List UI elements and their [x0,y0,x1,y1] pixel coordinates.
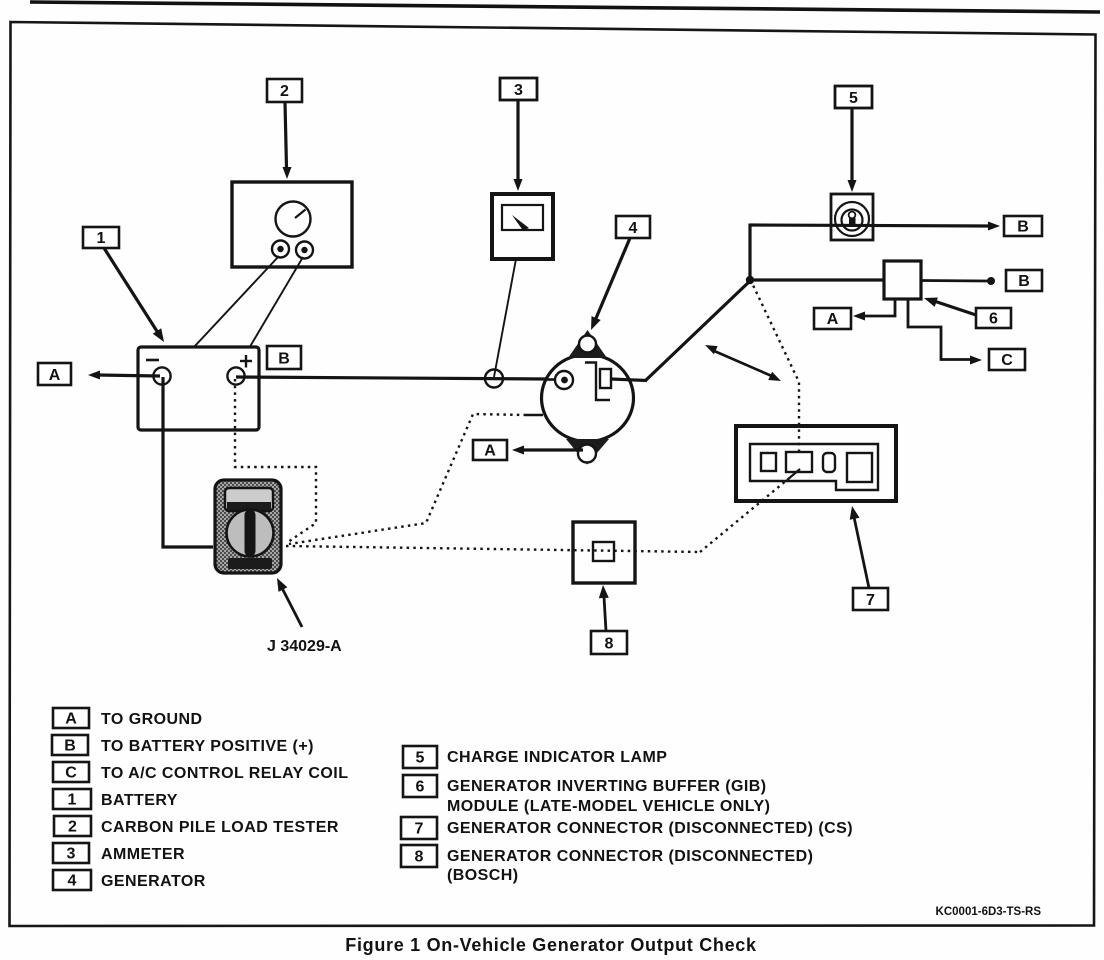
arrow from callout 5 to charge indicator lamp [848,108,857,192]
arrow from callout 7 to CS connector [850,506,869,588]
svg-text:B: B [1018,273,1030,290]
junction node dot [746,276,754,284]
CS connector cavity 4 [847,453,872,482]
wire diagonal from generator up to junction node [645,280,751,381]
ammeter sense lead to wire junction [494,259,516,377]
junction circle at ammeter tap [485,370,503,388]
svg-text:B: B [278,351,290,368]
wire generator to ground arrow A [512,446,583,455]
svg-text:Figure 1 On-Vehicle Generator: Figure 1 On-Vehicle Generator Output Che… [345,935,757,955]
carbon pile knob left [272,241,289,258]
callout box 5 [835,86,872,108]
arrow from callout 3 to ammeter [514,100,523,191]
wire battery negative down to tester J34029-A [163,377,213,547]
legend item 7 [401,817,853,839]
carbon pile meter needle [295,210,306,219]
callout box A (module ground) [814,308,851,329]
callout box C [989,349,1025,370]
CS connector inner outline [750,444,878,490]
legend key B [52,735,314,755]
svg-text:C: C [65,765,77,782]
legend item 8 [401,845,813,884]
GIB module lead to A/C relay coil arrow C [908,299,982,365]
svg-text:2: 2 [280,83,289,100]
dotted lead CS terminal up to junction node [751,281,799,452]
svg-text:4: 4 [68,873,77,890]
test lead from left knob to battery negative terminal [166,256,279,377]
svg-text:1: 1 [97,230,106,247]
callout box 6 [976,308,1011,328]
battery box (item 1) [138,347,259,430]
carbon pile load tester box (item 2) [232,182,352,267]
svg-text:(BOSCH): (BOSCH) [447,867,519,884]
callout box 4 [616,216,650,238]
svg-text:7: 7 [415,821,424,838]
generator case stub lead [526,414,543,417]
callout box 3 [500,78,537,100]
callout box 2 [267,79,302,102]
carbon pile knob right [296,242,313,259]
legend item 1 [53,789,178,809]
ammeter needle [512,215,529,231]
svg-text:B: B [1017,219,1029,236]
svg-text:C: C [1001,352,1013,369]
svg-text:KC0001-6D3-TS-RS: KC0001-6D3-TS-RS [936,906,1042,918]
legend item 3 [53,843,185,863]
svg-text:GENERATOR CONNECTOR (DISCONNEC: GENERATOR CONNECTOR (DISCONNECTED) (CS) [447,820,853,837]
svg-text:A: A [49,367,61,384]
arrow from callout 8 to Bosch connector [599,585,609,631]
wire riser from junction node up to lamp feed [748,224,751,282]
arrow from callout 4 to generator [591,238,630,330]
tester dial with knob [227,510,274,557]
wire into generator terminal [545,378,556,381]
svg-text:1: 1 [68,792,77,809]
wire junction node to GIB module [750,278,884,281]
arrow from callout 1 to battery [104,248,164,342]
GIB module ground lead to arrow A [853,299,895,321]
callout box 7 [853,588,888,610]
wire through lamp to battery positive arrow B [750,222,1000,231]
GIB module box (item 6) [884,261,921,299]
tester bottom band [228,558,272,569]
charge indicator lamp box (item 5) [831,194,873,240]
top rule bar [30,2,1100,12]
CS connector cavity 2 (probed) [786,452,812,472]
arrow from callout 6 to GIB module [924,298,976,316]
svg-text:GENERATOR INVERTING BUFFER (GI: GENERATOR INVERTING BUFFER (GIB) [447,778,767,795]
ammeter box (item 3) [492,194,553,259]
battery minus sign [146,359,159,362]
svg-text:8: 8 [605,636,614,653]
solid tip into CS connector terminal [787,469,800,480]
carbon pile meter dial [276,202,311,237]
legend item 5 [403,746,667,768]
test lead from right knob to battery positive terminal [235,257,303,372]
svg-text:TO GROUND: TO GROUND [101,711,203,728]
CS connector cavity 1 [761,453,776,471]
callout box 8 [591,631,627,654]
generator body (item 4) [542,355,634,442]
svg-text:GENERATOR: GENERATOR [101,873,206,890]
svg-text:TO BATTERY POSITIVE (+): TO BATTERY POSITIVE (+) [101,738,314,755]
legend key A [53,708,203,728]
legend key C [53,762,348,782]
dotted lead from tester to connectors [286,546,700,552]
svg-text:J 34029-A: J 34029-A [267,638,342,655]
svg-text:GENERATOR CONNECTOR (DISCONNEC: GENERATOR CONNECTOR (DISCONNECTED) [447,848,813,865]
svg-text:A: A [484,443,496,460]
generator top mounting ear [568,330,607,358]
svg-text:5: 5 [416,750,425,767]
svg-text:AMMETER: AMMETER [101,846,185,863]
svg-text:3: 3 [67,846,76,863]
CS generator connector box (item 7) [736,426,896,501]
generator bottom mounting ear [566,439,609,465]
battery positive terminal [227,367,244,384]
svg-text:BATTERY: BATTERY [101,792,178,809]
svg-text:A: A [65,711,77,728]
wire battery positive to junction [236,377,547,379]
svg-text:CHARGE INDICATOR LAMP: CHARGE INDICATOR LAMP [447,749,667,766]
wire generator output to diagonal riser [611,379,647,381]
Bosch generator connector box (item 8) [573,522,635,583]
svg-text:3: 3 [514,82,523,99]
callout box B (battery positive) [267,346,301,369]
callout box 1 [83,227,119,248]
arrow from callout 2 to carbon pile load tester [283,102,292,179]
svg-text:2: 2 [68,819,77,836]
generator internal regulator bracket [585,363,611,401]
legend item 6 [403,775,770,815]
svg-text:7: 7 [866,592,875,609]
svg-text:5: 5 [849,90,858,107]
ammeter display window [502,205,543,230]
double-headed arrow between generator lead and harness [705,345,781,381]
callout box B (module feed) [1006,270,1042,291]
battery negative terminal [153,367,170,384]
svg-text:4: 4 [629,220,638,237]
CS connector cavity 3 [823,453,835,472]
arrow from J 34029-A label to tester [277,578,302,627]
svg-text:TO A/C CONTROL RELAY COIL: TO A/C CONTROL RELAY COIL [101,765,348,782]
wire battery negative to ground arrow A [88,371,160,380]
legend item 4 [53,870,206,890]
tester J 34029-A body [215,480,281,573]
battery plus sign [240,355,252,368]
dotted lead battery positive to tester J34029-A [235,379,316,542]
callout box B (lamp feed) [1004,216,1042,236]
Bosch connector terminal square [593,542,614,561]
svg-text:CARBON PILE LOAD TESTER: CARBON PILE LOAD TESTER [101,819,339,836]
wire GIB module to battery positive B [921,277,995,285]
legend item 2 [54,816,339,836]
svg-text:A: A [827,311,839,328]
callout box A (generator ground) [473,440,507,460]
dotted lead generator case to tester [289,414,526,544]
svg-text:6: 6 [416,779,425,796]
tester display window [225,488,273,511]
dotted lead up to CS connector terminal [700,480,787,552]
svg-text:6: 6 [989,311,998,328]
svg-text:MODULE (LATE-MODEL VEHICLE ONL: MODULE (LATE-MODEL VEHICLE ONLY) [447,798,770,815]
callout box A (battery ground) [38,363,71,385]
generator output terminal [555,371,573,389]
svg-text:B: B [64,738,76,755]
svg-text:8: 8 [415,849,424,866]
